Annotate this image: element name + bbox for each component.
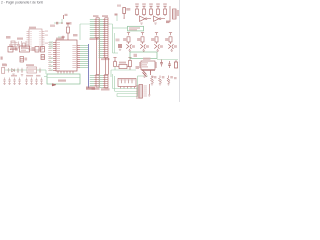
svg-text:2 - Pagin podenelle t de fonti: 2 - Pagin podenelle t de fonti [1,1,43,5]
